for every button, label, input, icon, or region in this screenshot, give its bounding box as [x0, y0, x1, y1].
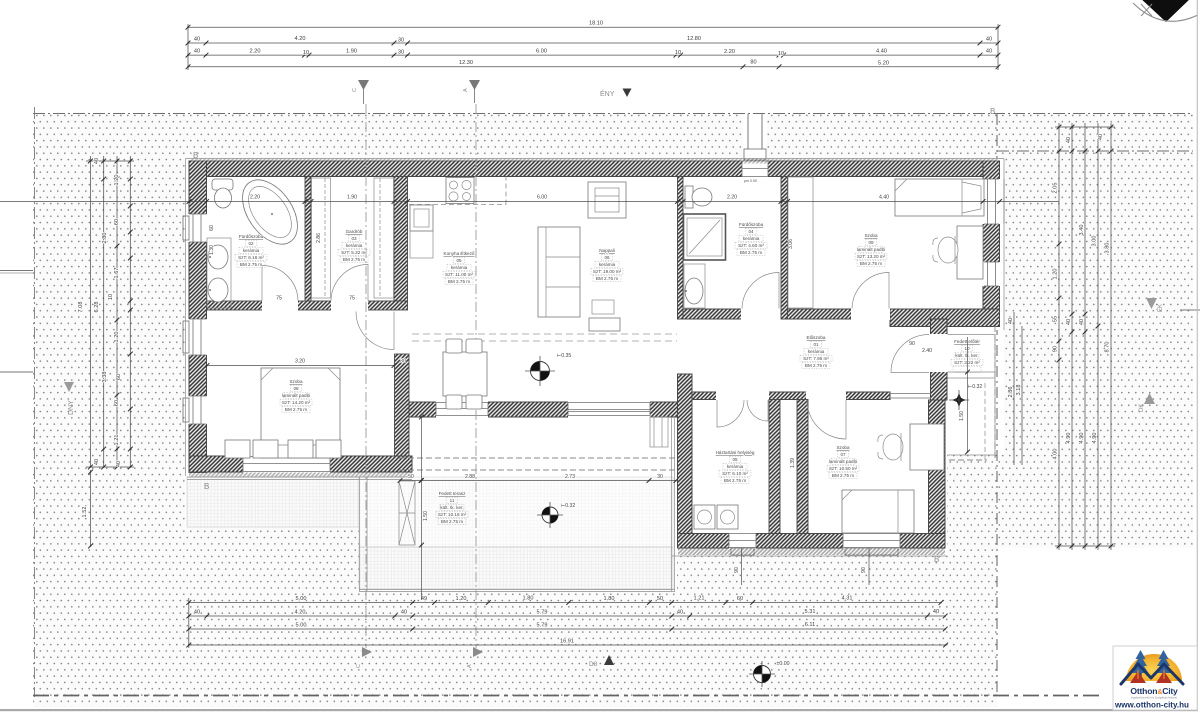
dashed eaves over terrace: [399, 458, 676, 470]
wall: bath1+gardrob south band: [207, 301, 408, 310]
utility appliances: [694, 505, 715, 529]
bathtub: [231, 170, 308, 254]
door: gardrob opening: [331, 300, 368, 311]
window: left block south: [243, 455, 330, 473]
svg-text:A: A: [467, 664, 473, 668]
svg-text:16.91: 16.91: [560, 639, 574, 645]
door arc: top bedroom: [852, 272, 889, 308]
eaves hatch tick band: [190, 159, 998, 164]
svg-text:55: 55: [1053, 316, 1059, 322]
sink1: [208, 245, 228, 269]
room label: Haztartasi helyiseg: [716, 450, 755, 483]
stipple ground texture: top band: [33, 114, 1193, 159]
window: north wall pm090: [742, 160, 768, 177]
side table: [592, 300, 614, 314]
svg-text:01: 01: [813, 342, 819, 347]
plinth line below left block: [187, 477, 412, 480]
svg-text:3.18: 3.18: [1016, 385, 1022, 396]
door arc: utility left leaf: [717, 400, 744, 427]
door: bath2 door opening: [741, 308, 781, 320]
svg-text:laminált padló: laminált padló: [282, 393, 311, 398]
svg-text:SzT: 11.00 m²: SzT: 11.00 m²: [445, 272, 473, 277]
svg-text:11: 11: [450, 498, 455, 503]
svg-text:4.20: 4.20: [295, 610, 306, 616]
svg-text:4.90: 4.90: [1066, 433, 1072, 444]
svg-text:2.20: 2.20: [727, 195, 737, 201]
door arc: bottom bedroom: [807, 400, 846, 439]
svg-text:50: 50: [657, 596, 663, 602]
svg-text:90: 90: [734, 567, 740, 573]
svg-text:kerámia: kerámia: [599, 262, 616, 267]
wall: bath2/bedroom partition: [781, 177, 788, 320]
svg-text:BM 2.75 m: BM 2.75 m: [860, 261, 882, 266]
svg-text:kült. tk. ker.: kült. tk. ker.: [440, 505, 463, 510]
window: living big slider: [568, 401, 650, 418]
property boundary bottom heavy dashed: [33, 695, 1100, 697]
room label: Szoba top right: [857, 233, 886, 266]
top dimension row 2: [186, 41, 191, 46]
DNY compass left: [64, 382, 74, 392]
svg-text:kerámia: kerámia: [243, 248, 260, 253]
room label: Gardrob: [341, 229, 367, 262]
window: bottom bedroom south wide: [843, 533, 900, 550]
room label: Furdoszoba 2: [738, 222, 764, 255]
wall: living south (terrace side): [409, 402, 678, 417]
bench row: [225, 440, 250, 458]
window: east wall lower: [982, 262, 1001, 286]
svg-text:Fedett terasz: Fedett terasz: [439, 491, 467, 496]
chairs: [446, 339, 462, 353]
svg-text:4.90: 4.90: [1079, 433, 1085, 444]
svg-text:3.38: 3.38: [102, 372, 108, 383]
svg-text:4.31: 4.31: [842, 596, 853, 602]
svg-text:A: A: [463, 88, 469, 92]
bath2 sink: [684, 264, 705, 308]
svg-text:4.20: 4.20: [295, 36, 306, 42]
door: bottom bedroom opening: [806, 391, 846, 401]
wall: niche/bedroom partition: [797, 400, 808, 534]
svg-text:07: 07: [840, 452, 846, 457]
window: west wall bath1: [188, 214, 208, 242]
stipple: below left block: [185, 527, 359, 707]
door: terrace door opening: [436, 401, 488, 418]
SW bedroom dim: [207, 365, 394, 367]
svg-text:10: 10: [108, 294, 114, 300]
desk bottom bedroom: [910, 424, 944, 470]
svg-text:SzT: 13.20 m²: SzT: 13.20 m²: [857, 254, 886, 259]
terrace dim: [400, 480, 676, 482]
svg-text:Szoba: Szoba: [836, 445, 849, 450]
svg-text:40: 40: [94, 158, 100, 164]
door: top bedroom door opening: [851, 308, 890, 320]
svg-text:SzT: 10.50 m²: SzT: 10.50 m²: [829, 466, 858, 471]
svg-text:30: 30: [657, 474, 663, 480]
wall: hall east / entry: [931, 319, 948, 400]
top dimension row 4: [186, 64, 191, 69]
svg-text:60: 60: [737, 596, 743, 602]
svg-text:Otthon&City: Otthon&City: [1130, 686, 1178, 696]
window: utility south: [729, 533, 756, 550]
left 1.52 dim: [90, 470, 92, 546]
svg-text:BM 2.75 m: BM 2.75 m: [832, 473, 854, 478]
wall: bottom block east: [929, 400, 946, 548]
wall: north exterior: [189, 161, 1000, 177]
svg-text:90: 90: [909, 341, 915, 347]
svg-text:SzT: 19.00 m²: SzT: 19.00 m²: [593, 269, 622, 274]
door arc: gardrob: [331, 264, 368, 300]
svg-text:SzT: 7.95 m²: SzT: 7.95 m²: [803, 356, 829, 361]
svg-text:Fürdőszoba: Fürdőszoba: [739, 222, 764, 227]
svg-text:3.20: 3.20: [295, 359, 305, 365]
wall: left block south exterior: [189, 456, 412, 472]
room label: Konyha Etkezo: [444, 250, 475, 284]
sideboard living: [589, 318, 620, 331]
benchmark S2: [537, 502, 563, 528]
wall: SW bedroom east: [395, 354, 410, 456]
svg-text:pm 0.90: pm 0.90: [744, 179, 757, 183]
benchmark S4 star: [949, 390, 969, 410]
svg-text:±0.00: ±0.00: [777, 661, 790, 667]
svg-text:40: 40: [933, 609, 939, 615]
svg-text:Fürdőszoba: Fürdőszoba: [239, 234, 264, 239]
room label: Nappali: [593, 248, 622, 281]
property boundary dash-dot right vertical: [996, 114, 998, 694]
svg-text:12.30: 12.30: [459, 60, 473, 66]
stipple: left band: [33, 159, 185, 707]
section line C: [365, 104, 367, 648]
paved terrace grid P2 (covered terrace + step): [359, 477, 673, 547]
svg-text:3.00: 3.00: [1092, 236, 1098, 247]
svg-text:40: 40: [986, 37, 992, 43]
svg-text:10: 10: [778, 51, 784, 57]
kitchen sink cabinet: [410, 205, 433, 231]
svg-text:60: 60: [114, 219, 120, 225]
svg-text:DNY: DNY: [68, 400, 75, 415]
svg-text:B: B: [990, 107, 995, 116]
left edge stub lines: [0, 270, 33, 272]
room label: Szoba bottom: [829, 445, 858, 478]
svg-text:1.20: 1.20: [456, 596, 467, 602]
svg-text:Előszoba: Előszoba: [807, 335, 826, 340]
stipple: right of bottom block / below porch: [947, 455, 1004, 548]
shower tray: [684, 214, 726, 260]
svg-text:SzT: 5.32 m²: SzT: 5.32 m²: [341, 250, 367, 255]
door: bath1 opening: [262, 300, 298, 311]
terrace east edge double line: [672, 417, 675, 591]
right edge compass triangles: [1146, 298, 1157, 309]
svg-text:10: 10: [303, 50, 309, 56]
svg-text:90: 90: [861, 567, 867, 573]
top dimension row 3: [186, 53, 191, 58]
svg-text:5.00: 5.00: [296, 623, 307, 629]
svg-text:03: 03: [351, 236, 357, 241]
terrace vertical dim: [421, 417, 423, 600]
SW bedroom bed: [261, 368, 340, 458]
wall: west exterior: [189, 161, 207, 473]
top bedroom bed: [895, 179, 984, 216]
small stubs below south windows: [741, 548, 743, 585]
window: west wall bedroom upper: [188, 319, 208, 355]
wall: east exterior (top): [983, 161, 1000, 326]
svg-text:09: 09: [868, 240, 874, 245]
room label: Szoba SW: [282, 379, 311, 412]
svg-text:SzT: 14.20 m²: SzT: 14.20 m²: [282, 400, 311, 405]
paved terrace grid P1 (walkway west): [187, 477, 359, 527]
svg-text:Gardrób: Gardrób: [346, 229, 363, 234]
svg-text:90: 90: [1053, 346, 1059, 352]
svg-text:7.08: 7.08: [78, 302, 84, 313]
svg-text:60: 60: [209, 225, 215, 231]
svg-text:60: 60: [114, 400, 120, 406]
north arrow X mark: [1141, 4, 1152, 16]
svg-text:10: 10: [675, 50, 681, 56]
svg-text:6.28: 6.28: [94, 302, 100, 313]
svg-text:2.86: 2.86: [1008, 387, 1014, 398]
room label: Fedett terasz: [438, 491, 467, 524]
property boundary right jog: [997, 150, 1193, 152]
svg-text:4.40: 4.40: [876, 49, 887, 55]
svg-text:40: 40: [677, 610, 683, 616]
svg-text:04: 04: [748, 229, 754, 234]
room label: Fedett eloter: [954, 339, 980, 365]
svg-text:40: 40: [1079, 319, 1085, 325]
bed corner fold: [895, 179, 907, 191]
svg-text:BM 2.75 m: BM 2.75 m: [740, 250, 762, 255]
svg-text:Háztartási helyiség: Háztartási helyiség: [716, 450, 755, 455]
svg-text:40: 40: [1066, 319, 1072, 325]
svg-text:Nappali: Nappali: [599, 248, 615, 253]
north arrow arc: [1133, 3, 1198, 21]
svg-text:40: 40: [1098, 134, 1104, 140]
stipple: below terrace: [359, 591, 677, 707]
left dimension columns: [86, 156, 134, 467]
svg-text:12.80: 12.80: [687, 36, 701, 42]
chair bottom bedroom: [878, 433, 903, 461]
svg-text:30: 30: [400, 359, 406, 365]
door: utility double door opening: [716, 391, 769, 401]
svg-text:40: 40: [401, 610, 407, 616]
svg-text:50: 50: [408, 474, 414, 480]
interior dimension chain: [0, 201, 1059, 203]
svg-text:1.21: 1.21: [114, 435, 120, 446]
wall: bottom block south: [678, 534, 946, 549]
svg-text:kerámia: kerámia: [808, 349, 825, 354]
svg-text:BM 2.75 m: BM 2.75 m: [441, 519, 463, 524]
svg-text:75: 75: [349, 296, 355, 302]
svg-text:BM 2.75 m: BM 2.75 m: [805, 363, 827, 368]
svg-text:⊢0.35: ⊢0.35: [557, 352, 572, 359]
svg-text:4.90: 4.90: [1092, 433, 1098, 444]
terrace SE post: [650, 417, 668, 447]
section mark A bottom: [473, 647, 483, 657]
svg-text:2.40: 2.40: [922, 348, 932, 354]
svg-text:4.40: 4.40: [879, 195, 889, 201]
svg-text:08: 08: [293, 386, 299, 391]
svg-text:5.20: 5.20: [878, 61, 889, 67]
svg-text:Konyha Étkező: Konyha Étkező: [444, 250, 475, 256]
svg-text:2.20: 2.20: [250, 195, 260, 201]
svg-text:6.11: 6.11: [805, 622, 815, 628]
svg-text:kerámia: kerámia: [346, 243, 363, 248]
svg-text:1.50: 1.50: [959, 411, 965, 421]
room label: Eloszoba: [803, 335, 829, 368]
building footprint white underlay: [185, 158, 1004, 476]
svg-text:1.80: 1.80: [604, 596, 615, 602]
svg-text:2.80: 2.80: [102, 233, 108, 244]
svg-text:1.67: 1.67: [114, 268, 120, 279]
svg-text:Szoba: Szoba: [864, 233, 877, 238]
svg-text:BM 2.75 m: BM 2.75 m: [596, 276, 618, 281]
svg-text:kerámia: kerámia: [727, 464, 744, 469]
wall: gardrob east (30cm): [394, 177, 408, 302]
svg-text:40: 40: [94, 459, 100, 465]
svg-text:05: 05: [456, 258, 462, 263]
svg-text:1.90: 1.90: [346, 49, 357, 55]
north arrow black triangle: [1138, 0, 1193, 22]
door arc: utility right leaf: [747, 400, 768, 421]
svg-text:1.30: 1.30: [209, 245, 215, 255]
svg-text:C: C: [352, 88, 358, 92]
svg-text:4.00: 4.00: [1053, 449, 1059, 460]
svg-text:B: B: [193, 151, 198, 160]
svg-text:06: 06: [604, 255, 610, 260]
washbasin counter bath1: [207, 238, 231, 308]
logo tree left: [1133, 650, 1149, 677]
svg-text:BM 2.75 m: BM 2.75 m: [724, 478, 746, 483]
svg-text:Ingatlanközvetítő és Szolgálta: Ingatlanközvetítő és Szolgáltató Hálózat: [1131, 696, 1177, 700]
svg-text:1.20: 1.20: [114, 332, 120, 343]
svg-text:⊢0.32: ⊢0.32: [561, 502, 576, 509]
svg-text:2.86: 2.86: [316, 233, 322, 243]
svg-text:30: 30: [398, 50, 404, 56]
svg-text:D8: D8: [589, 661, 598, 668]
svg-text:www.otthon-city.hu: www.otthon-city.hu: [1114, 701, 1189, 710]
svg-text:Szoba: Szoba: [289, 379, 302, 384]
page bottom edge: [0, 709, 1198, 711]
svg-text:2.88: 2.88: [465, 474, 475, 480]
toilet bath1: [212, 179, 233, 190]
stipple: right band: [1004, 159, 1193, 548]
bottom dimension rows: [189, 598, 946, 648]
property boundary dash-dot left: [34, 107, 36, 697]
svg-text:laminált padló: laminált padló: [829, 459, 858, 464]
svg-text:kerámia: kerámia: [743, 236, 760, 241]
svg-text:C: C: [356, 664, 362, 668]
dining table: [443, 352, 487, 396]
benchmark S3: [749, 661, 775, 687]
svg-text:6.00: 6.00: [537, 195, 547, 201]
door arc: bath1: [262, 265, 298, 300]
svg-text:2.73: 2.73: [565, 474, 575, 480]
armchair living: [588, 182, 626, 218]
svg-text:ÉNY: ÉNY: [600, 89, 615, 98]
svg-text:B: B: [934, 555, 939, 564]
door arc: entry: [891, 335, 929, 373]
entry porch outline: [948, 335, 996, 456]
svg-text:40: 40: [1008, 318, 1014, 324]
svg-text:BM 2.75 m: BM 2.75 m: [285, 407, 307, 412]
desk top bedroom: [957, 226, 983, 279]
svg-text:1.20: 1.20: [1053, 269, 1059, 280]
sofa living: [538, 227, 580, 317]
chair top bedroom: [933, 236, 958, 264]
plinth below bottom block: [672, 555, 947, 557]
svg-text:40: 40: [194, 610, 200, 616]
section flag A top: [474, 88, 476, 103]
svg-text:40: 40: [194, 37, 200, 43]
section flag C top: [363, 88, 365, 104]
wall: bottom block north: [692, 392, 890, 400]
svg-text:60: 60: [116, 374, 122, 380]
svg-text:5.31: 5.31: [805, 609, 816, 615]
top dimension row 1 (18.10): [188, 24, 998, 70]
svg-text:B: B: [204, 482, 209, 491]
logo sun: [1126, 654, 1182, 681]
porch vertical dim: [967, 337, 969, 452]
svg-text:SzT: 6.10 m²: SzT: 6.10 m²: [722, 471, 748, 476]
svg-text:SzT: 4.60 m²: SzT: 4.60 m²: [738, 243, 764, 248]
svg-text:18.10: 18.10: [589, 21, 603, 27]
window: east wall upper: [982, 179, 1001, 224]
svg-text:2.20: 2.20: [724, 49, 735, 55]
svg-text:6.00: 6.00: [536, 49, 547, 55]
svg-text:2.20: 2.20: [250, 49, 261, 55]
benchmark S1: [525, 356, 555, 386]
svg-text:05: 05: [732, 457, 738, 462]
svg-text:40: 40: [194, 49, 200, 55]
svg-text:02: 02: [248, 241, 254, 246]
svg-text:kült. tk. ker.: kült. tk. ker.: [955, 353, 978, 358]
section line A: [475, 104, 477, 648]
svg-text:BM 2.75 m: BM 2.75 m: [343, 257, 365, 262]
svg-text:3.40: 3.40: [1079, 225, 1085, 236]
svg-text:DK: DK: [1139, 404, 1145, 412]
svg-text:kerámia: kerámia: [451, 265, 468, 270]
door arc: bath2: [742, 272, 779, 308]
svg-text:ÉK: ÉK: [1157, 304, 1164, 312]
svg-text:40: 40: [1066, 137, 1072, 143]
page right edge: [1196, 0, 1198, 711]
right edge stub line: [1180, 309, 1200, 311]
svg-text:1.50: 1.50: [423, 511, 429, 521]
room label: Furdoszoba 1: [238, 234, 264, 267]
vent bay above north window: [743, 114, 767, 161]
eaves thin outline: [186, 159, 1005, 477]
sink2: [208, 278, 228, 302]
svg-text:80: 80: [750, 60, 756, 66]
bottom bedroom bed: [842, 490, 914, 533]
gardrob closets: [312, 178, 331, 298]
svg-text:⊢0.32: ⊢0.32: [968, 383, 983, 390]
wall: utility/niche partition: [769, 400, 780, 534]
logo tree right: [1156, 650, 1172, 677]
door arc: SW bedroom: [356, 312, 394, 350]
window: west wall bedroom lower: [188, 396, 208, 424]
svg-text:1.39: 1.39: [790, 458, 796, 468]
svg-text:8.70: 8.70: [1105, 342, 1111, 353]
svg-text:2.05: 2.05: [1053, 183, 1059, 194]
bath2 toilet: [685, 186, 693, 208]
wall: living/bath2 partition: [678, 177, 684, 320]
wall: bath1/gardrob partition: [305, 177, 311, 302]
svg-text:1.90: 1.90: [347, 195, 357, 201]
svg-text:40: 40: [986, 49, 992, 55]
stove: [446, 178, 474, 204]
svg-text:1.20: 1.20: [114, 175, 120, 186]
svg-text:5.79: 5.79: [537, 610, 548, 616]
kitchen low cabinet: [410, 231, 433, 258]
terrace walk edge lines: [359, 477, 675, 592]
